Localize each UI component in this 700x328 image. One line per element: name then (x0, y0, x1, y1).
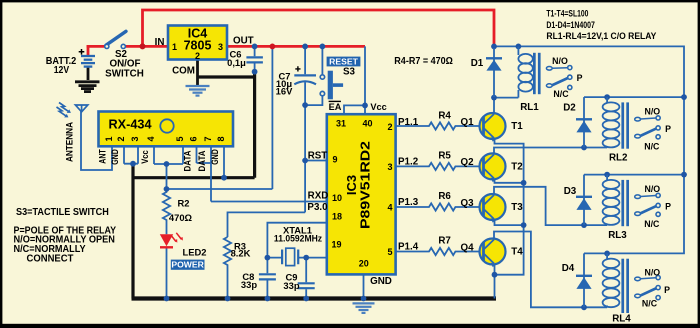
svg-text:RX-434: RX-434 (109, 116, 153, 131)
crystal XTAL1 (282, 248, 298, 265)
svg-text:EA: EA (329, 102, 342, 112)
svg-text:GND: GND (110, 149, 120, 165)
wire: antenna to RX-434 pin 1 (81, 112, 112, 171)
svg-text:RST: RST (308, 150, 328, 161)
junction nodes XTAL (265, 255, 310, 261)
wire: relay coil bottom lines to transistor collectors (494, 98, 607, 308)
label C6 value (227, 49, 246, 69)
labels RL3 contact names (644, 184, 671, 229)
relay RL3 coil (603, 175, 620, 226)
svg-text:40: 40 (362, 118, 372, 128)
microcontroller IC3 P89V51RD2 (327, 114, 396, 274)
svg-text:IN: IN (155, 37, 165, 48)
svg-text:S3: S3 (343, 67, 356, 78)
wire: Vcc and EA to IC3 pins 40,31 (344, 46, 365, 114)
svg-text:P1.4: P1.4 (398, 242, 419, 253)
svg-text:R5: R5 (438, 151, 451, 162)
wire: IC3 port P1.4 with resistor R7 to Q4 base (395, 248, 484, 255)
relay RL1 contacts N/O P N/C (546, 66, 572, 90)
svg-text:12V: 12V (54, 65, 70, 76)
wire: IC3 pin 20 GND (363, 274, 365, 298)
label C7 value (276, 71, 293, 97)
labels P1.1 - P1.4 (398, 117, 419, 253)
wire: IC4 COM pin to ground symbol (196, 60, 199, 86)
wire: black ground bus from IC4 COM to RX ground and bottom rail (133, 72, 255, 299)
resistor R2 470ohm from +5V node to LED2 (163, 189, 170, 234)
svg-text:D1: D1 (471, 58, 484, 69)
svg-text:P: P (665, 124, 671, 134)
svg-text:10: 10 (332, 193, 342, 203)
svg-text:RXD: RXD (308, 191, 329, 202)
junction nodes on +5V red rail (252, 44, 258, 50)
svg-text:P: P (665, 202, 671, 212)
svg-text:P1.2: P1.2 (398, 157, 419, 168)
svg-text:Vcc: Vcc (370, 102, 386, 112)
junction nodes RX-434 supply and ground pins (130, 69, 257, 192)
wire: IC3 port P1.3 with resistor R6 to Q3 base (395, 203, 484, 210)
svg-text:3: 3 (130, 136, 140, 141)
wire: +12V red net from battery via S2 to IC4 and top rail to relays (87, 10, 494, 55)
svg-text:16V: 16V (276, 86, 293, 97)
svg-text:5: 5 (175, 136, 185, 141)
svg-text:P: P (577, 73, 583, 83)
labels T1 T2 T3 T4 (511, 121, 523, 258)
svg-text:R2: R2 (178, 198, 190, 209)
svg-text:N/O: N/O (644, 107, 660, 117)
relay RL4 coil (603, 253, 620, 307)
svg-text:9: 9 (332, 155, 337, 165)
svg-text:Q3: Q3 (460, 198, 474, 209)
wire: RX-434 pins 4,5 Vcc jumper and +5V feed (154, 48, 272, 189)
svg-text:2: 2 (116, 136, 126, 141)
label left legend block (14, 207, 117, 264)
wire: S3 reset switch connections (305, 48, 322, 105)
label S2 ON/OF SWITCH (105, 49, 144, 80)
label EA with overline and Vcc (329, 101, 387, 112)
svg-text:33p: 33p (241, 279, 257, 290)
label C8 33p (241, 271, 257, 290)
diode D4 1N4007 (576, 253, 592, 307)
capacitor C7 10u electrolytic (294, 75, 316, 84)
labels D1 D2 D3 D4 (471, 58, 577, 274)
relay RL3 core (621, 180, 629, 226)
svg-text:P3.0: P3.0 (307, 202, 328, 213)
svg-text:R4-R7 = 470Ω: R4-R7 = 470Ω (394, 56, 453, 67)
ground under IC4 COM (186, 86, 210, 96)
svg-text:N/C: N/C (642, 299, 658, 309)
RX-434 pin name labels (98, 149, 221, 172)
tactile switch S3 with RESET label (320, 71, 343, 100)
svg-text:P1.1: P1.1 (398, 117, 419, 128)
label RXD P3.0 (307, 191, 328, 214)
labels RL2 contact names (644, 107, 671, 152)
svg-text:Q1: Q1 (460, 117, 474, 128)
junction nodes at diode bottoms / coil bottom lines (491, 95, 587, 310)
svg-text:RESET: RESET (329, 57, 358, 67)
svg-text:POWER: POWER (171, 260, 204, 270)
labels RL1 contact names (552, 56, 582, 99)
capacitor C9 33p (298, 283, 315, 288)
junction nodes on +12V relay rail (491, 44, 687, 178)
svg-text:Q4: Q4 (460, 242, 474, 253)
svg-text:D2: D2 (563, 103, 576, 114)
wire: RX-434 pins 6,7 data jumper and line to IC3 RXD pin 10 (197, 146, 328, 201)
svg-text:2: 2 (195, 51, 200, 61)
labels R4 R5 R6 R7 (438, 110, 451, 246)
relay RL4 contacts N/O P N/C (635, 276, 661, 300)
wire: RX-434 pin 8 to ground line (223, 146, 225, 177)
relay RL1 core (533, 53, 541, 94)
svg-text:2: 2 (387, 122, 392, 132)
svg-text:4: 4 (146, 136, 156, 141)
svg-text:GND: GND (370, 276, 392, 287)
wire: IC3 port P1.1 with resistor R4 to Q1 base (395, 122, 484, 129)
svg-text:CONNECT: CONNECT (27, 253, 74, 264)
svg-text:DATA: DATA (197, 150, 207, 172)
svg-text:4: 4 (387, 203, 392, 213)
svg-text:P: P (664, 285, 670, 295)
label IN OUT COM (155, 36, 254, 77)
labels Q1 Q2 Q3 Q4 (460, 117, 474, 254)
battery plus sign (79, 49, 85, 55)
LED2 power indicator (160, 233, 183, 248)
svg-text:D3: D3 (564, 186, 577, 197)
svg-text:RL2: RL2 (609, 153, 628, 164)
svg-text:OUT: OUT (233, 36, 254, 47)
wire: XTAL1 network pins 18,19 with C8,C9 (267, 223, 327, 299)
RX-434 receiver module (99, 112, 234, 147)
wire: LED2 cathode to ground rail (166, 248, 168, 299)
relay RL4 core (621, 259, 629, 313)
svg-text:P1.3: P1.3 (398, 197, 419, 208)
transistor Q1 T1 SL100 (480, 113, 506, 142)
ground under IC3 pin 20 (353, 303, 375, 313)
label top-right parts list (546, 8, 657, 42)
C7 plus sign (295, 66, 300, 71)
antenna symbol (75, 105, 87, 112)
relay RL1 coil (518, 46, 532, 97)
capacitor C8 33p (259, 274, 276, 279)
wire: RX-434 pins 2,3 ground jumper (124, 146, 138, 163)
svg-text:DATA: DATA (183, 150, 193, 172)
svg-text:6: 6 (189, 136, 199, 141)
svg-text:N/C: N/C (644, 141, 660, 151)
labels RL4 contact names (642, 267, 670, 308)
wire: RST net from C7/S3 junction down to IC3 pin 9 and R3 (228, 105, 328, 237)
svg-text:N/O: N/O (644, 184, 660, 194)
switch S2 ON/OF (105, 31, 126, 48)
wire: C7 leads (304, 48, 306, 105)
wire: IC3 port P1.2 with resistor R5 to Q2 base (395, 163, 484, 170)
POWER label box (171, 260, 205, 270)
svg-text:LED2: LED2 (183, 247, 207, 258)
svg-text:N/O: N/O (644, 267, 660, 277)
svg-text:33p: 33p (283, 280, 299, 291)
relay RL2 core (621, 102, 629, 148)
svg-text:20: 20 (359, 258, 369, 268)
svg-text:8.2K: 8.2K (231, 248, 251, 259)
wire: C6 leads (254, 48, 256, 72)
labels RL1 RL2 RL3 RL4 (520, 102, 631, 324)
resistor R3 8.2K from RST to ground (224, 237, 231, 299)
svg-text:N/C: N/C (644, 219, 660, 229)
svg-text:T3: T3 (511, 202, 523, 213)
label R3 8.2K (231, 240, 251, 258)
junction nodes at relay coil tops (604, 94, 610, 256)
svg-text:19: 19 (331, 239, 341, 249)
svg-text:7: 7 (203, 136, 213, 141)
svg-text:N/C: N/C (553, 89, 569, 99)
relay RL3 contacts N/O P N/C (635, 193, 661, 216)
wire: bottom ground rail (132, 296, 497, 300)
RESET label box (327, 57, 361, 67)
label C9 33p (283, 272, 299, 292)
svg-text:5: 5 (387, 247, 392, 257)
svg-text:S3=TACTILE SWITCH: S3=TACTILE SWITCH (16, 207, 109, 218)
svg-text:D1-D4=1N4007: D1-D4=1N4007 (546, 20, 595, 31)
junction nodes on bottom ground rail (164, 296, 367, 302)
svg-text:T4: T4 (511, 246, 523, 257)
svg-text:COM: COM (172, 66, 195, 77)
svg-text:470Ω: 470Ω (169, 212, 193, 223)
svg-text:0,1μ: 0,1μ (227, 57, 246, 68)
junction node at S2/IC4 input (140, 43, 146, 49)
junction nodes on emitter rail (492, 180, 527, 278)
svg-text:R4: R4 (438, 110, 451, 121)
diode D3 1N4007 (576, 175, 592, 226)
transistor Q4 T4 SL100 (480, 239, 506, 268)
capacitor C6 0.1u (246, 57, 263, 62)
transistor Q3 T3 SL100 (480, 194, 506, 223)
svg-text:GND: GND (210, 149, 220, 165)
svg-text:18: 18 (332, 212, 342, 222)
RF waves arrows (57, 103, 69, 116)
svg-text:R7: R7 (438, 236, 451, 247)
svg-text:11.0592MHz: 11.0592MHz (274, 233, 322, 244)
svg-text:8: 8 (216, 136, 226, 141)
svg-text:Q2: Q2 (460, 157, 474, 168)
svg-text:ANT: ANT (98, 149, 108, 164)
wire: battery negative to ground (87, 68, 90, 80)
svg-text:T1-T4=SL100: T1-T4=SL100 (546, 8, 588, 19)
label BATT.2 12V (46, 56, 77, 76)
svg-text:D4: D4 (562, 263, 575, 274)
svg-text:3: 3 (387, 162, 392, 172)
svg-text:RL3: RL3 (608, 230, 627, 241)
relay RL2 coil (603, 97, 620, 147)
op-amp: none; regulator IC4 7805 (168, 26, 227, 62)
transistor Q2 T2 SL100 (480, 153, 506, 182)
svg-text:T2: T2 (511, 161, 523, 172)
svg-text:3: 3 (218, 42, 223, 52)
diode D2 1N4007 (576, 97, 592, 147)
svg-text:SWITCH: SWITCH (105, 69, 144, 80)
svg-text:Vcc: Vcc (140, 150, 150, 164)
svg-text:RL1: RL1 (520, 102, 539, 113)
svg-text:31: 31 (336, 118, 346, 128)
wire: emitter rail to ground (495, 138, 524, 299)
svg-text:T1: T1 (511, 121, 523, 132)
label R2 470ohm (169, 198, 193, 224)
junction nodes Vcc/EA and RST (302, 102, 368, 163)
svg-text:RL1-RL4=12V,1 C/O RELAY: RL1-RL4=12V,1 C/O RELAY (546, 31, 657, 42)
svg-text:R6: R6 (438, 191, 451, 202)
ground below battery (75, 82, 100, 92)
diode D1 1N4007 (486, 48, 502, 97)
label XTAL1 11.0592MHz (274, 224, 322, 243)
svg-text:1: 1 (104, 136, 114, 141)
svg-text:1: 1 (172, 42, 177, 52)
svg-text:N/O: N/O (552, 56, 568, 66)
relay RL2 contacts N/O P N/C (635, 116, 661, 139)
battery BATT.2 12V (81, 56, 95, 67)
svg-text:RL4: RL4 (612, 314, 631, 325)
wire: +12V blue relay rail and stubs (494, 46, 684, 253)
svg-text:P89V51RD2: P89V51RD2 (358, 141, 373, 229)
svg-text:ANTENNA: ANTENNA (63, 122, 74, 162)
